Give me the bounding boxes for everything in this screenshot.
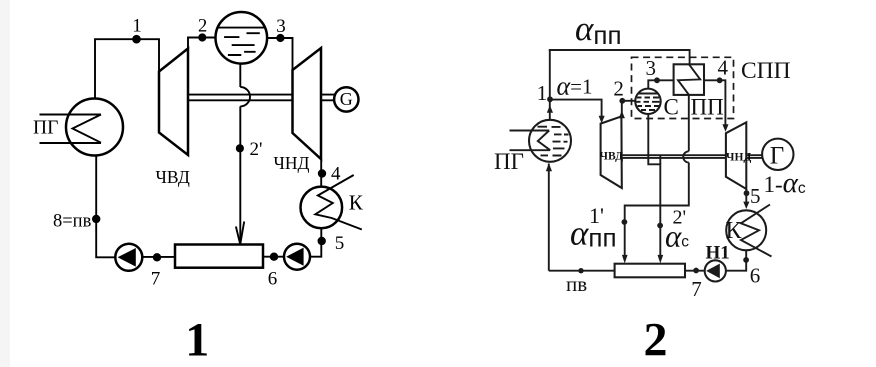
- wire PG2 top riser to reheat line: [549, 50, 551, 120]
- drain PP to heater 1': [625, 163, 689, 256]
- pump P1 circle: [115, 244, 142, 271]
- svg-text:1: 1: [185, 314, 209, 367]
- condenser K2 circle: [726, 210, 766, 250]
- separator S water pattern: [636, 94, 659, 111]
- svg-text:пв: пв: [566, 272, 587, 296]
- wire CND exhaust to condenser: [320, 159, 322, 187]
- wire PP to node 4 and down to CND2: [704, 80, 725, 124]
- node 6 (right): [743, 257, 749, 263]
- wire K2 to pump N1: [725, 250, 746, 270]
- crossing hop over shaft: [240, 87, 250, 106]
- svg-text:4: 4: [717, 55, 728, 79]
- svg-text:ПГ: ПГ: [494, 149, 524, 174]
- svg-text:2: 2: [198, 17, 207, 37]
- pump P2 triangle: [286, 248, 303, 266]
- node 7: [153, 253, 161, 261]
- svg-text:ПП: ПП: [691, 95, 724, 120]
- reheat steam line alpha-pp top: [549, 50, 690, 64]
- svg-text:G: G: [340, 89, 353, 109]
- svg-text:ЧНД: ЧНД: [726, 152, 751, 164]
- node 2: [198, 33, 206, 41]
- condenser K2 cooling zigzag: [741, 205, 772, 257]
- turbine CVD2: [601, 116, 622, 188]
- PG inlet line bottom: [40, 142, 102, 144]
- svg-text:α=1: α=1: [557, 72, 593, 101]
- node 5 (right): [744, 190, 750, 196]
- node 5: [318, 237, 326, 245]
- svg-text:7: 7: [691, 277, 702, 301]
- svg-text:3: 3: [646, 56, 657, 80]
- wire CVD2 exhaust up to node 2: [621, 101, 623, 116]
- svg-text:2: 2: [613, 76, 624, 100]
- steam generator PG2 circle: [529, 120, 571, 162]
- shaft CND2 to generator: [746, 155, 762, 158]
- wire separator drain down: [239, 64, 241, 87]
- pump P1 triangle: [118, 248, 136, 267]
- drain PP down: [688, 95, 690, 151]
- svg-text:ЧВД: ЧВД: [156, 167, 190, 187]
- separator S circle: [635, 89, 660, 114]
- svg-text:К: К: [726, 218, 743, 244]
- shaft CVD2 to CND2: [622, 155, 726, 158]
- svg-text:1-αс: 1-αс: [764, 167, 806, 199]
- svg-text:1: 1: [132, 16, 142, 37]
- arrowhead up into PG2: [546, 163, 552, 171]
- arrowhead up below node 1: [547, 105, 553, 113]
- wire pump N1 to heater right: [685, 270, 705, 272]
- stub crossover extraction to 2' jog: [659, 155, 661, 164]
- condenser K circle: [301, 187, 343, 229]
- arrowhead down into CVD2: [599, 116, 605, 124]
- pump N1 triangle: [706, 264, 720, 279]
- svg-text:Н1: Н1: [706, 242, 730, 263]
- wire drain to heater: [239, 106, 241, 244]
- svg-text:К: К: [349, 191, 364, 215]
- svg-text:5: 5: [750, 184, 761, 208]
- wire pump P1 to PG bottom: [96, 156, 115, 258]
- node 4: [318, 169, 326, 177]
- turbine CND: [293, 48, 322, 159]
- svg-text:2': 2': [250, 139, 263, 160]
- separator drum: [216, 12, 268, 64]
- wire node 2 to separator S: [622, 100, 635, 102]
- wire feedwater riser into PG2: [548, 164, 550, 271]
- drain S to heater 2': [648, 114, 660, 256]
- node 7 (right): [693, 268, 699, 274]
- node pv: [578, 268, 583, 273]
- pump P2 circle: [284, 244, 310, 270]
- node 1 (right): [547, 96, 553, 102]
- wire CND2 exhaust to condenser K2: [745, 189, 747, 202]
- dashed box SPP: [632, 57, 734, 118]
- PG inlet line top: [40, 114, 102, 116]
- node 2' (right): [657, 223, 663, 229]
- reheater PP box: [674, 64, 704, 95]
- separator water dashes: [224, 33, 260, 55]
- feedwater line to PG2: [549, 270, 615, 272]
- svg-text:4: 4: [331, 164, 341, 185]
- svg-text:αпп: αпп: [575, 9, 622, 50]
- condenser cooling water zigzag: [315, 175, 362, 230]
- shaft CND to generator: [321, 95, 334, 101]
- wire CVD exhaust to separator: [188, 38, 216, 49]
- heater rectangle: [175, 245, 263, 268]
- svg-text:7: 7: [151, 269, 161, 290]
- wire pump P2 to heater: [263, 256, 284, 258]
- svg-text:8=пв: 8=пв: [53, 212, 92, 232]
- arrowhead 2' into heater: [658, 255, 664, 264]
- shaft between turbines: [188, 95, 293, 101]
- turbine CVD: [159, 49, 188, 156]
- svg-text:5: 5: [335, 233, 345, 254]
- wire PG top to turbine CVD inlet: [95, 39, 159, 98]
- arrowhead down into CND2: [722, 124, 728, 132]
- svg-text:С: С: [664, 95, 679, 120]
- svg-text:6: 6: [268, 269, 278, 290]
- node 6: [270, 253, 278, 261]
- node 3 (right): [654, 77, 660, 83]
- PG2 water dashes: [538, 127, 569, 156]
- wire heater to pump P1: [143, 256, 175, 258]
- svg-text:1: 1: [537, 81, 548, 105]
- separator water level line: [218, 27, 265, 29]
- crossing hop over shaft (right): [683, 151, 689, 162]
- wire S top to reheater PP: [648, 80, 673, 88]
- generator G2 circle: [762, 139, 793, 170]
- svg-text:ПГ: ПГ: [33, 118, 58, 139]
- node 2 (right): [619, 98, 625, 104]
- arrowhead 1' into heater: [622, 255, 628, 264]
- svg-text:Г: Г: [770, 143, 784, 170]
- node 3: [276, 34, 284, 42]
- svg-text:ЧВД: ЧВД: [600, 151, 624, 163]
- arrowhead up to node 2: [619, 111, 625, 119]
- arrowhead down into K2: [743, 202, 749, 209]
- main steam line alpha=1: [550, 100, 602, 116]
- PG2 zigzag: [538, 131, 550, 151]
- arrowhead into heater: [236, 222, 244, 245]
- svg-text:СПП: СПП: [741, 58, 791, 84]
- node 4 (right): [717, 77, 723, 83]
- svg-text:2: 2: [644, 314, 668, 367]
- node 2': [236, 144, 244, 152]
- turbine CND2: [726, 122, 746, 189]
- wire separator to turbine CND inlet: [267, 38, 292, 70]
- PG2 inlet lines: [510, 131, 551, 151]
- PG heating zigzag: [73, 115, 102, 143]
- pump N1 circle: [705, 260, 726, 281]
- wire condenser to pump P2: [310, 228, 321, 257]
- reheater PP coil Z: [678, 64, 700, 95]
- steam generator PG circle: [66, 99, 123, 156]
- svg-text:6: 6: [750, 264, 761, 288]
- heater rectangle (right): [615, 264, 685, 278]
- node 1': [622, 219, 628, 225]
- page left margin band: [0, 0, 10, 367]
- svg-text:3: 3: [276, 16, 286, 37]
- node 1: [132, 35, 141, 44]
- svg-text:ЧНД: ЧНД: [274, 153, 310, 173]
- node 8: [92, 215, 100, 223]
- generator G: [334, 87, 358, 111]
